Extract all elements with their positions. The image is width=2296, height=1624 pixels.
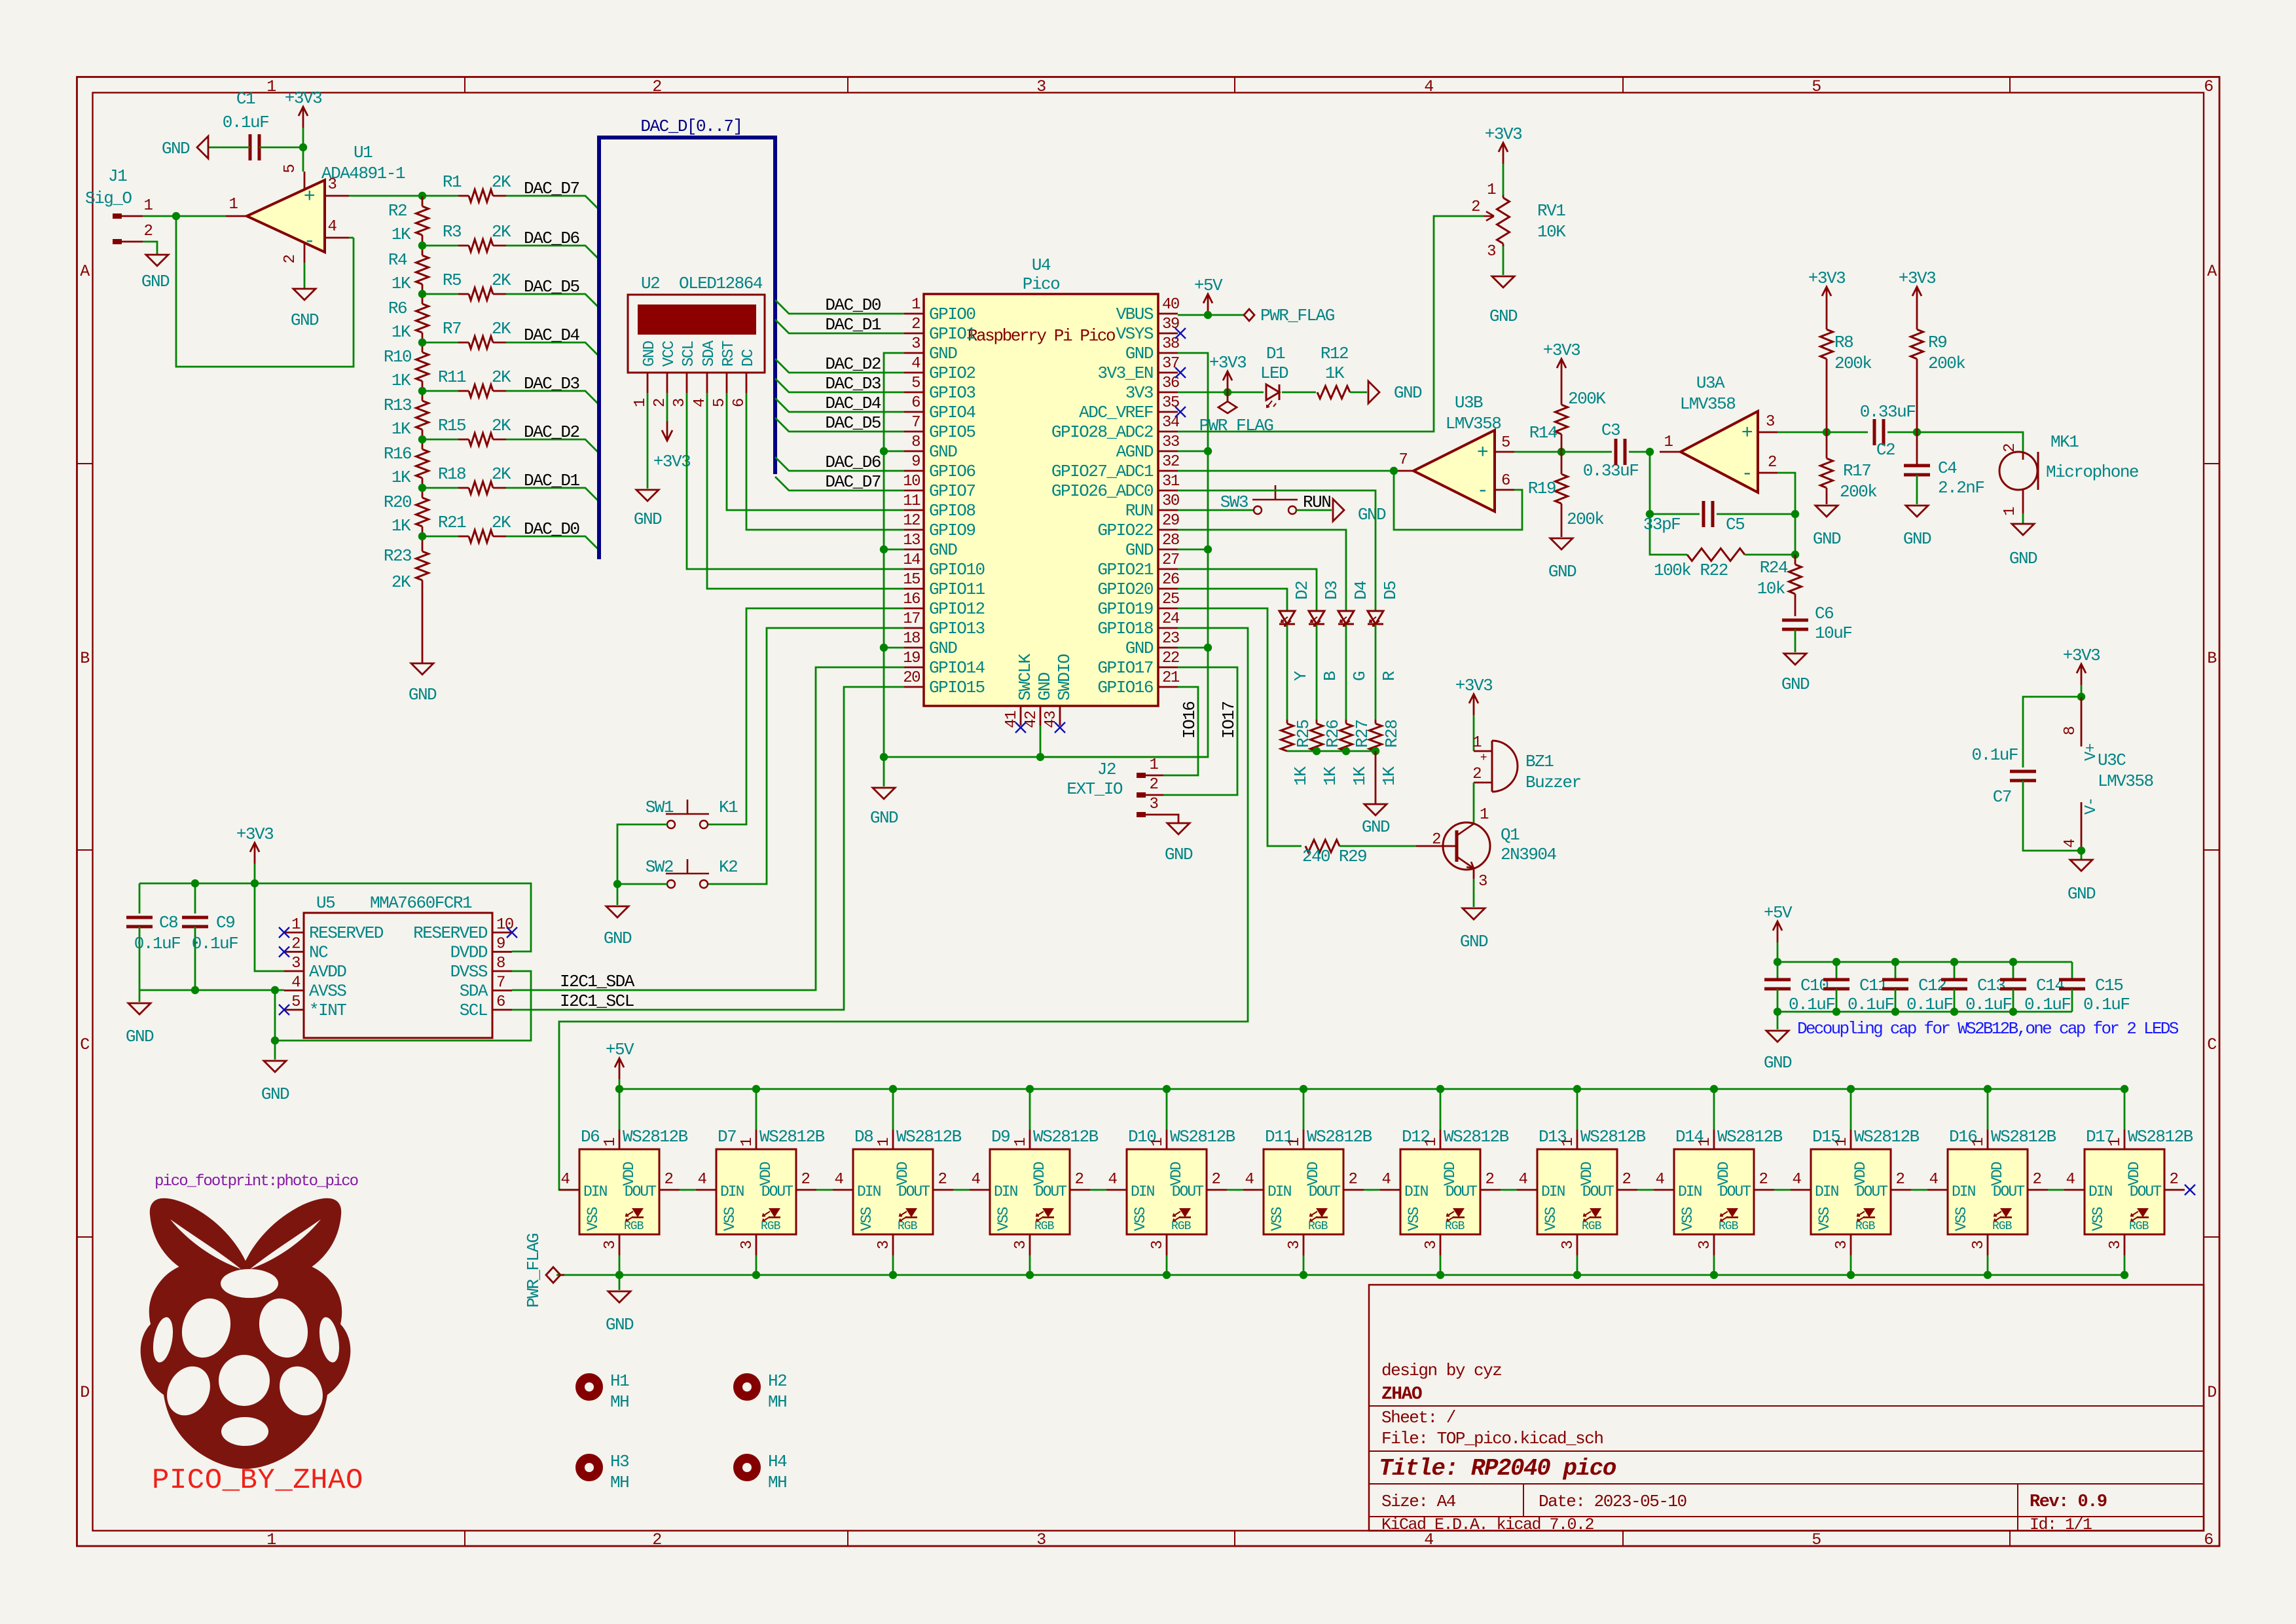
resistor R28 1K bbox=[1370, 720, 1402, 786]
svg-text:R16: R16 bbox=[384, 444, 411, 464]
power +5V above decoupling caps bbox=[1764, 903, 1793, 962]
svg-text:2.2nF: 2.2nF bbox=[1938, 478, 1984, 498]
svg-text:GPIO3: GPIO3 bbox=[929, 383, 975, 403]
wire Q1 emitter to GND bbox=[1473, 879, 1475, 907]
svg-text:2: 2 bbox=[2033, 1171, 2041, 1189]
ground below R17 bbox=[1813, 506, 1841, 549]
capacitor C7 0.1uF bbox=[1971, 697, 2081, 851]
junction pin42 GND bus bbox=[1036, 753, 1044, 761]
svg-text:7: 7 bbox=[911, 414, 920, 432]
power +3V3 above 3V3 pin bbox=[1209, 353, 1246, 392]
power +3V3 above buzzer bbox=[1455, 676, 1492, 751]
svg-text:DVSS: DVSS bbox=[450, 962, 488, 982]
svg-text:4: 4 bbox=[835, 1171, 844, 1189]
junction at J1 pin1 node bbox=[172, 212, 180, 220]
svg-text:1: 1 bbox=[1487, 181, 1496, 199]
wire mic pin1 to GND bbox=[2022, 513, 2024, 524]
wire DOUT D8 to DIN D9 bbox=[953, 1189, 970, 1191]
resistor R26 1K bbox=[1311, 720, 1343, 786]
wire J2 pin3 to GND bbox=[1163, 815, 1178, 822]
svg-text:2: 2 bbox=[1896, 1171, 1904, 1189]
svg-text:R27: R27 bbox=[1353, 720, 1372, 748]
wire VDD D10 bbox=[1166, 1089, 1168, 1130]
svg-text:H4: H4 bbox=[768, 1452, 787, 1471]
svg-text:0.1uF: 0.1uF bbox=[2083, 995, 2130, 1014]
svg-text:VSYS: VSYS bbox=[1116, 324, 1154, 344]
svg-text:VSS: VSS bbox=[1406, 1207, 1423, 1231]
junction VSS D8 bbox=[889, 1271, 897, 1279]
svg-text:6: 6 bbox=[2204, 77, 2213, 96]
svg-text:+: + bbox=[1480, 752, 1487, 765]
svg-text:DIN: DIN bbox=[857, 1183, 881, 1200]
svg-text:Id: 1/1: Id: 1/1 bbox=[2030, 1515, 2092, 1534]
wire DOUT D7 to DIN D8 bbox=[816, 1189, 833, 1191]
mounting hole H4 bbox=[738, 1452, 787, 1492]
ground flag right of R12 bbox=[1368, 381, 1422, 403]
svg-text:GND: GND bbox=[929, 638, 957, 658]
svg-text:3: 3 bbox=[738, 1241, 756, 1249]
svg-text:+: + bbox=[1741, 422, 1753, 445]
svg-text:GPIO7: GPIO7 bbox=[929, 481, 975, 501]
junction VSS D11 bbox=[1300, 1271, 1307, 1279]
svg-text:U4: U4 bbox=[1032, 255, 1051, 275]
wire VSS D10 bbox=[1166, 1255, 1168, 1275]
wire VSS D9 bbox=[1029, 1255, 1031, 1275]
svg-text:GND: GND bbox=[870, 808, 898, 828]
svg-text:14: 14 bbox=[903, 551, 920, 569]
wire SW GND down bbox=[617, 884, 619, 905]
ground below C4 bbox=[1903, 506, 1931, 549]
junction top rail C11 bbox=[1832, 958, 1840, 966]
WS2812B LED D15 bbox=[1791, 1127, 1920, 1255]
wire VSS D8 bbox=[892, 1255, 894, 1275]
svg-text:VSS: VSS bbox=[995, 1207, 1012, 1231]
svg-text:2K: 2K bbox=[392, 572, 411, 592]
svg-text:D7: D7 bbox=[718, 1127, 736, 1147]
svg-text:VSS: VSS bbox=[1816, 1207, 1833, 1231]
wire VDD D13 bbox=[1576, 1089, 1578, 1130]
svg-text:VDD: VDD bbox=[1031, 1162, 1048, 1186]
resistor R12 1K bbox=[1317, 344, 1350, 399]
junction bottom rail C11 bbox=[1832, 1008, 1840, 1016]
wire GPIO28_ADC2 to RV1 wiper bbox=[1178, 212, 1494, 432]
svg-text:VSS: VSS bbox=[1132, 1207, 1149, 1231]
WS2812B LED D17 bbox=[2064, 1127, 2193, 1255]
svg-text:3: 3 bbox=[1423, 1241, 1440, 1249]
power +5V for LED chain bbox=[606, 1040, 634, 1089]
svg-text:2: 2 bbox=[911, 316, 920, 333]
svg-text:4: 4 bbox=[1519, 1171, 1528, 1189]
svg-text:AGND: AGND bbox=[1116, 442, 1154, 462]
wire VBUS pin40 bbox=[1178, 314, 1244, 316]
svg-text:2: 2 bbox=[652, 1530, 661, 1549]
svg-text:+3V3: +3V3 bbox=[653, 452, 690, 471]
svg-text:1: 1 bbox=[144, 197, 153, 215]
svg-text:DIN: DIN bbox=[1815, 1183, 1838, 1200]
svg-text:RESERVED: RESERVED bbox=[413, 923, 488, 943]
wire OLED SCL to GPIO10 bbox=[687, 393, 904, 569]
svg-text:VDD: VDD bbox=[757, 1162, 774, 1186]
svg-text:AVDD: AVDD bbox=[309, 962, 346, 982]
svg-text:2K: 2K bbox=[492, 319, 511, 339]
wire SCL to GPIO15 bbox=[512, 687, 904, 1010]
svg-text:33: 33 bbox=[1162, 434, 1179, 451]
svg-text:RGB: RGB bbox=[761, 1220, 781, 1233]
svg-text:SW3: SW3 bbox=[1220, 492, 1248, 512]
svg-text:2: 2 bbox=[801, 1171, 810, 1189]
svg-text:U1: U1 bbox=[354, 143, 373, 162]
wire DOUT D6 to DIN D7 bbox=[680, 1189, 696, 1191]
svg-text:R6: R6 bbox=[388, 299, 407, 318]
svg-text:1: 1 bbox=[1664, 434, 1673, 451]
svg-text:1K: 1K bbox=[392, 468, 411, 487]
svg-text:DVDD: DVDD bbox=[450, 943, 488, 963]
svg-text:I2C1_SCL: I2C1_SCL bbox=[560, 991, 634, 1011]
svg-text:0.1uF: 0.1uF bbox=[134, 934, 181, 953]
power +3V3 above R9 bbox=[1916, 287, 1918, 308]
svg-text:PWR_FLAG: PWR_FLAG bbox=[1199, 416, 1273, 435]
no-connect cross at D17 DOUT bbox=[2185, 1185, 2195, 1195]
svg-text:GPIO19: GPIO19 bbox=[1097, 599, 1153, 619]
svg-text:DAC_D3: DAC_D3 bbox=[825, 374, 881, 394]
svg-text:3: 3 bbox=[875, 1241, 893, 1249]
svg-text:DOUT: DOUT bbox=[1582, 1183, 1614, 1200]
svg-text:GND: GND bbox=[2009, 549, 2037, 568]
svg-text:GND: GND bbox=[141, 272, 170, 291]
svg-text:R23: R23 bbox=[384, 546, 411, 566]
svg-text:C2: C2 bbox=[1876, 440, 1895, 460]
svg-text:R15: R15 bbox=[438, 416, 465, 435]
svg-text:33pF: 33pF bbox=[1643, 515, 1680, 534]
wire D3 to R26 bbox=[1316, 625, 1318, 720]
junction top rail C14 bbox=[2009, 958, 2017, 966]
svg-text:+3V3: +3V3 bbox=[1808, 268, 1845, 288]
svg-text:H2: H2 bbox=[768, 1371, 786, 1391]
svg-text:+3V3: +3V3 bbox=[236, 824, 273, 844]
svg-text:R25: R25 bbox=[1294, 720, 1313, 748]
wire VDD D7 bbox=[756, 1089, 757, 1130]
svg-text:K2: K2 bbox=[719, 857, 737, 877]
resistor R25 1K bbox=[1281, 720, 1314, 786]
svg-text:RGB: RGB bbox=[1171, 1220, 1192, 1233]
wire J1 pin2 to GND bbox=[143, 242, 157, 254]
svg-text:21: 21 bbox=[1162, 669, 1180, 687]
svg-text:4: 4 bbox=[972, 1171, 981, 1189]
svg-text:7: 7 bbox=[496, 974, 505, 992]
wire VSS D14 bbox=[1713, 1255, 1715, 1275]
svg-text:RGB: RGB bbox=[624, 1220, 644, 1233]
svg-text:2K: 2K bbox=[492, 222, 511, 242]
svg-text:C6: C6 bbox=[1815, 604, 1833, 623]
junctions on right GND chain bbox=[1204, 447, 1212, 455]
wire 3V3 pin36 row bbox=[1178, 392, 1264, 394]
svg-text:WS2812B: WS2812B bbox=[1444, 1127, 1509, 1147]
svg-text:1K: 1K bbox=[392, 274, 411, 293]
svg-text:DAC_D4: DAC_D4 bbox=[524, 325, 580, 345]
svg-text:100k R22: 100k R22 bbox=[1654, 561, 1728, 580]
svg-text:RGB: RGB bbox=[1855, 1220, 1876, 1233]
svg-text:VSS: VSS bbox=[1679, 1207, 1696, 1231]
svg-text:200K: 200K bbox=[1568, 389, 1606, 409]
svg-text:ZHAO: ZHAO bbox=[1381, 1384, 1422, 1405]
svg-text:R17: R17 bbox=[1843, 461, 1870, 481]
svg-text:J2: J2 bbox=[1097, 760, 1116, 779]
svg-text:GND: GND bbox=[929, 344, 957, 363]
ground below U5 bbox=[261, 1061, 289, 1104]
no-connect crosses on U5 bbox=[279, 927, 517, 1015]
svg-text:DIN: DIN bbox=[994, 1183, 1017, 1200]
svg-text:2: 2 bbox=[2001, 444, 2019, 452]
svg-text:2: 2 bbox=[1212, 1171, 1220, 1189]
junction U1 output / R2 / R1 bbox=[418, 192, 426, 200]
svg-text:GND: GND bbox=[929, 540, 957, 560]
wire AVSS down to GND bbox=[274, 990, 276, 1060]
wire DOUT D9 to DIN D10 bbox=[1090, 1189, 1106, 1191]
svg-text:2: 2 bbox=[144, 223, 153, 240]
junction AVSS drop bbox=[271, 986, 279, 994]
svg-text:4: 4 bbox=[561, 1171, 570, 1189]
WS2812B LED D16 bbox=[1927, 1127, 2056, 1255]
svg-text:6: 6 bbox=[911, 394, 920, 412]
wire decoupling top rail bbox=[1777, 961, 2072, 963]
op-amp U3A LMV358 bbox=[1660, 373, 1777, 492]
wire top 3V3 rail to DVDD bbox=[139, 883, 531, 951]
svg-text:2: 2 bbox=[1471, 198, 1480, 216]
svg-text:GPIO15: GPIO15 bbox=[929, 678, 985, 697]
svg-text:1K: 1K bbox=[1325, 363, 1345, 383]
svg-text:3: 3 bbox=[1696, 1241, 1714, 1249]
svg-text:GND: GND bbox=[1460, 932, 1488, 951]
bus DAC_D[0..7] bbox=[599, 117, 775, 559]
svg-text:WS2812B: WS2812B bbox=[1854, 1127, 1920, 1147]
svg-text:1K: 1K bbox=[392, 322, 411, 342]
capacitor C12 0.1uF bbox=[1882, 962, 1953, 1014]
svg-text:2: 2 bbox=[1622, 1171, 1631, 1189]
svg-text:DOUT: DOUT bbox=[898, 1183, 930, 1200]
svg-text:1: 1 bbox=[1480, 806, 1489, 824]
svg-text:VDD: VDD bbox=[1442, 1162, 1459, 1186]
svg-text:240: 240 bbox=[1302, 847, 1330, 866]
ground below C6 bbox=[1781, 654, 1810, 694]
svg-text:1: 1 bbox=[2107, 1137, 2124, 1147]
svg-text:3: 3 bbox=[1286, 1241, 1303, 1249]
svg-text:DOUT: DOUT bbox=[1856, 1183, 1887, 1200]
svg-text:DOUT: DOUT bbox=[1446, 1183, 1477, 1200]
svg-text:0.1uF: 0.1uF bbox=[1848, 995, 1894, 1014]
svg-text:Sheet: /: Sheet: / bbox=[1381, 1408, 1456, 1428]
svg-text:1K: 1K bbox=[1321, 766, 1340, 786]
buzzer BZ1 bbox=[1472, 734, 1581, 792]
wire R12 to GND flag bbox=[1350, 392, 1367, 394]
svg-text:5: 5 bbox=[1501, 434, 1510, 452]
wire D2 to R25 bbox=[1286, 625, 1288, 720]
resistor R17 200k bbox=[1821, 432, 1878, 504]
svg-text:ADC_VREF: ADC_VREF bbox=[1079, 403, 1153, 422]
wire decoupling bottom rail bbox=[1777, 1011, 2072, 1013]
wire VSS D6 bbox=[619, 1255, 621, 1275]
ground below decoupling caps bbox=[1764, 1031, 1792, 1073]
svg-text:+3V3: +3V3 bbox=[1543, 341, 1580, 360]
capacitor C4 2.2nF bbox=[1904, 432, 1984, 504]
svg-text:4: 4 bbox=[1424, 77, 1433, 96]
svg-text:Title: RP2040 pico: Title: RP2040 pico bbox=[1379, 1455, 1616, 1482]
svg-text:H3: H3 bbox=[610, 1452, 629, 1471]
svg-text:MH: MH bbox=[610, 1473, 629, 1492]
svg-text:28: 28 bbox=[1162, 532, 1179, 549]
junction VDD D6 bbox=[615, 1085, 623, 1093]
svg-text:32: 32 bbox=[1162, 453, 1179, 471]
svg-text:GPIO17: GPIO17 bbox=[1097, 658, 1153, 678]
svg-text:4: 4 bbox=[1382, 1171, 1391, 1189]
svg-text:1: 1 bbox=[266, 77, 276, 96]
junction VDD D16 bbox=[1984, 1085, 1992, 1093]
ground below LED resistors bbox=[1362, 804, 1390, 837]
junction VDD D14 bbox=[1710, 1085, 1718, 1093]
wire OLED VCC pin2 bbox=[666, 393, 668, 421]
junction U3C V+ node bbox=[2077, 693, 2085, 701]
svg-text:8: 8 bbox=[2062, 727, 2079, 735]
wire J1 pin1 to U1 input bbox=[143, 215, 226, 217]
svg-text:0.1uF: 0.1uF bbox=[1971, 745, 2018, 765]
ground below Q1 bbox=[1460, 908, 1488, 951]
svg-text:1: 1 bbox=[1012, 1137, 1030, 1147]
junction rail +3V3 bbox=[251, 879, 259, 887]
svg-text:7: 7 bbox=[1399, 451, 1408, 469]
junction R9 node bbox=[1913, 428, 1921, 436]
svg-text:RGB: RGB bbox=[898, 1220, 918, 1233]
svg-text:RGB: RGB bbox=[1719, 1220, 1739, 1233]
svg-text:R12: R12 bbox=[1321, 344, 1348, 363]
WS2812B LED D13 bbox=[1517, 1127, 1646, 1255]
svg-text:0.1uF: 0.1uF bbox=[1789, 995, 1835, 1014]
svg-text:AVSS: AVSS bbox=[309, 982, 346, 1001]
svg-text:KiCad E.D.A. kicad 7.0.2: KiCad E.D.A. kicad 7.0.2 bbox=[1381, 1515, 1594, 1534]
svg-text:+3V3: +3V3 bbox=[1209, 353, 1246, 373]
svg-text:39: 39 bbox=[1162, 316, 1179, 333]
svg-text:11: 11 bbox=[903, 492, 920, 510]
junction DVSS node bbox=[271, 1037, 279, 1044]
power flag PWR_FLAG at LED ground rail bbox=[524, 1234, 564, 1308]
svg-text:DOUT: DOUT bbox=[1719, 1183, 1751, 1200]
power +5V above VBUS bbox=[1194, 276, 1223, 315]
wire VDD D6 bbox=[619, 1089, 621, 1130]
junction VDD D8 bbox=[889, 1085, 897, 1093]
svg-text:1: 1 bbox=[1150, 756, 1159, 774]
svg-text:DOUT: DOUT bbox=[1993, 1183, 2024, 1200]
mounting hole H2 bbox=[738, 1371, 786, 1412]
svg-text:VSS: VSS bbox=[858, 1207, 875, 1231]
wire +5V rail for WS2812B bbox=[619, 1088, 2124, 1090]
wire AVSS rail bbox=[139, 989, 284, 991]
no-connect crosses on U4 pins 39 37 35 41 43 bbox=[1015, 328, 1186, 733]
wire OLED RST to GPIO8 bbox=[727, 393, 904, 510]
svg-text:GND: GND bbox=[604, 929, 632, 948]
wire GPIO12 to SW1 bbox=[708, 608, 904, 824]
svg-text:DAC_D7: DAC_D7 bbox=[825, 472, 881, 492]
wire U1 pin4 stub to feedback bbox=[349, 237, 354, 239]
wire U3C to GND bbox=[2081, 851, 2083, 859]
svg-text:1: 1 bbox=[911, 296, 920, 314]
svg-text:DAC_D6: DAC_D6 bbox=[825, 452, 881, 472]
ground below microphone bbox=[2009, 524, 2037, 568]
svg-text:1: 1 bbox=[738, 1137, 756, 1147]
svg-text:+5V: +5V bbox=[1194, 276, 1223, 295]
svg-text:3: 3 bbox=[1478, 873, 1487, 891]
junctions on ladder bbox=[418, 242, 426, 249]
svg-text:GPIO27_ADC1: GPIO27_ADC1 bbox=[1051, 462, 1154, 481]
bus entries to Pico pins bbox=[775, 295, 904, 492]
svg-text:30: 30 bbox=[1162, 492, 1179, 510]
ground below SW1 SW2 bbox=[604, 906, 632, 948]
junction feedback node C5 bbox=[1791, 510, 1799, 518]
svg-text:DIN: DIN bbox=[1952, 1183, 1975, 1200]
svg-text:0.1uF: 0.1uF bbox=[1906, 995, 1953, 1014]
svg-text:WS2812B: WS2812B bbox=[759, 1127, 825, 1147]
svg-text:+5V: +5V bbox=[1764, 903, 1793, 923]
wire VSS D11 bbox=[1303, 1255, 1305, 1275]
svg-text:D9: D9 bbox=[991, 1127, 1010, 1147]
wire U3B pin5 to R14/R19 bbox=[1514, 451, 1561, 453]
svg-text:1: 1 bbox=[1149, 1137, 1167, 1147]
svg-text:WS2812B: WS2812B bbox=[2128, 1127, 2193, 1147]
wire DOUT D14 to DIN D15 bbox=[1774, 1189, 1791, 1191]
svg-text:K1: K1 bbox=[719, 798, 738, 817]
svg-text:DAC_D7: DAC_D7 bbox=[524, 179, 579, 198]
svg-text:SDA: SDA bbox=[460, 982, 488, 1001]
svg-text:4: 4 bbox=[1245, 1171, 1254, 1189]
resistor R24 10k bbox=[1757, 555, 1802, 616]
microphone MK1 bbox=[1999, 432, 2138, 516]
svg-text:MH: MH bbox=[610, 1392, 629, 1412]
WS2812B LED D14 bbox=[1654, 1127, 1783, 1255]
junction VSS D13 bbox=[1573, 1271, 1581, 1279]
ground symbol below GND bus bbox=[870, 757, 898, 828]
junction VDD D11 bbox=[1300, 1085, 1307, 1093]
wire GPIO27_ADC1 to U3B output bbox=[1178, 470, 1394, 472]
wire U3A pin3 row to microphone bbox=[1777, 432, 1868, 434]
capacitor C8 0.1uF bbox=[126, 883, 180, 990]
svg-text:0.1uF: 0.1uF bbox=[2024, 995, 2071, 1014]
svg-text:DIN: DIN bbox=[583, 1183, 607, 1200]
wire VDD D15 bbox=[1850, 1089, 1852, 1130]
potentiometer RV1 10K bbox=[1471, 181, 1566, 261]
wire OLED DC to GPIO9 bbox=[746, 393, 904, 530]
svg-text:RESERVED: RESERVED bbox=[309, 923, 384, 943]
svg-text:DAC_D4: DAC_D4 bbox=[825, 394, 881, 413]
svg-text:10K: 10K bbox=[1537, 222, 1566, 242]
capacitor C3 0.33uF bbox=[1561, 420, 1650, 481]
svg-text:+3V3: +3V3 bbox=[1899, 268, 1935, 288]
svg-text:GND: GND bbox=[2068, 884, 2096, 904]
wire D1 to R12 bbox=[1282, 392, 1316, 394]
svg-text:GPIO28_ADC2: GPIO28_ADC2 bbox=[1051, 422, 1153, 442]
svg-text:GPIO11: GPIO11 bbox=[929, 580, 985, 599]
wire VSS ground rail for WS2812B bbox=[556, 1274, 2124, 1276]
svg-text:3: 3 bbox=[1970, 1241, 1988, 1249]
op-amp U1 ADA4891-1 bbox=[226, 143, 405, 263]
svg-text:RGB: RGB bbox=[2129, 1220, 2149, 1233]
svg-text:0.1uF: 0.1uF bbox=[192, 934, 238, 953]
capacitor C13 0.1uF bbox=[1941, 962, 2012, 1014]
junction VDD D13 bbox=[1573, 1085, 1581, 1093]
svg-text:DAC_D1: DAC_D1 bbox=[524, 471, 580, 490]
wire VSS D12 bbox=[1440, 1255, 1442, 1275]
power flag PWR_FLAG below 3V3 pin bbox=[1199, 392, 1273, 435]
connector J2 EXT_IO bbox=[1066, 756, 1163, 817]
wire mic-in node down to C5 and R22 bbox=[1650, 452, 1687, 555]
svg-text:DIN: DIN bbox=[1267, 1183, 1291, 1200]
svg-text:27: 27 bbox=[1162, 551, 1179, 569]
